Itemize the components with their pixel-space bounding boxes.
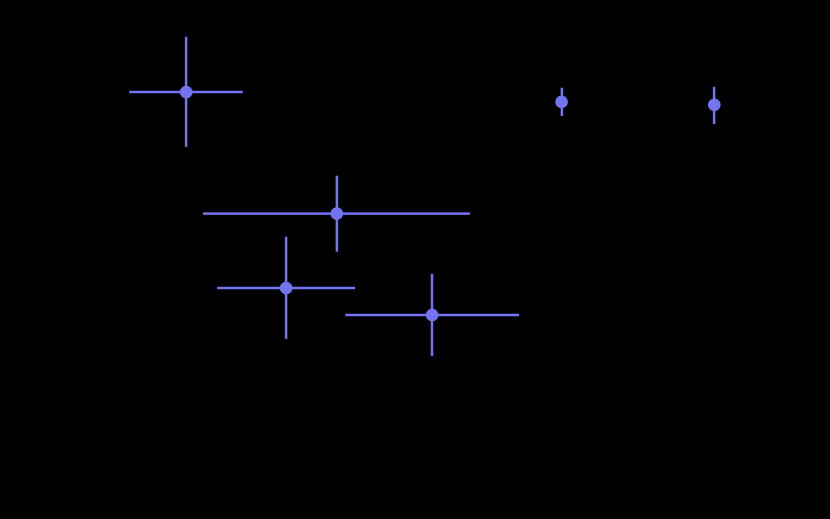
point 2 error bars	[203, 212, 470, 215]
point 6 error bars	[345, 314, 519, 317]
point 6 marker	[426, 309, 439, 322]
point 1 marker	[180, 86, 193, 99]
point 1 error bars	[129, 91, 243, 94]
point 5 error bars	[217, 287, 355, 290]
point 4 error bar	[713, 87, 716, 124]
point 2 marker	[331, 207, 344, 220]
point 3 marker	[555, 96, 568, 109]
point 3 error bar	[561, 88, 564, 116]
point 5 marker	[280, 282, 293, 295]
point 4 marker	[708, 99, 721, 112]
